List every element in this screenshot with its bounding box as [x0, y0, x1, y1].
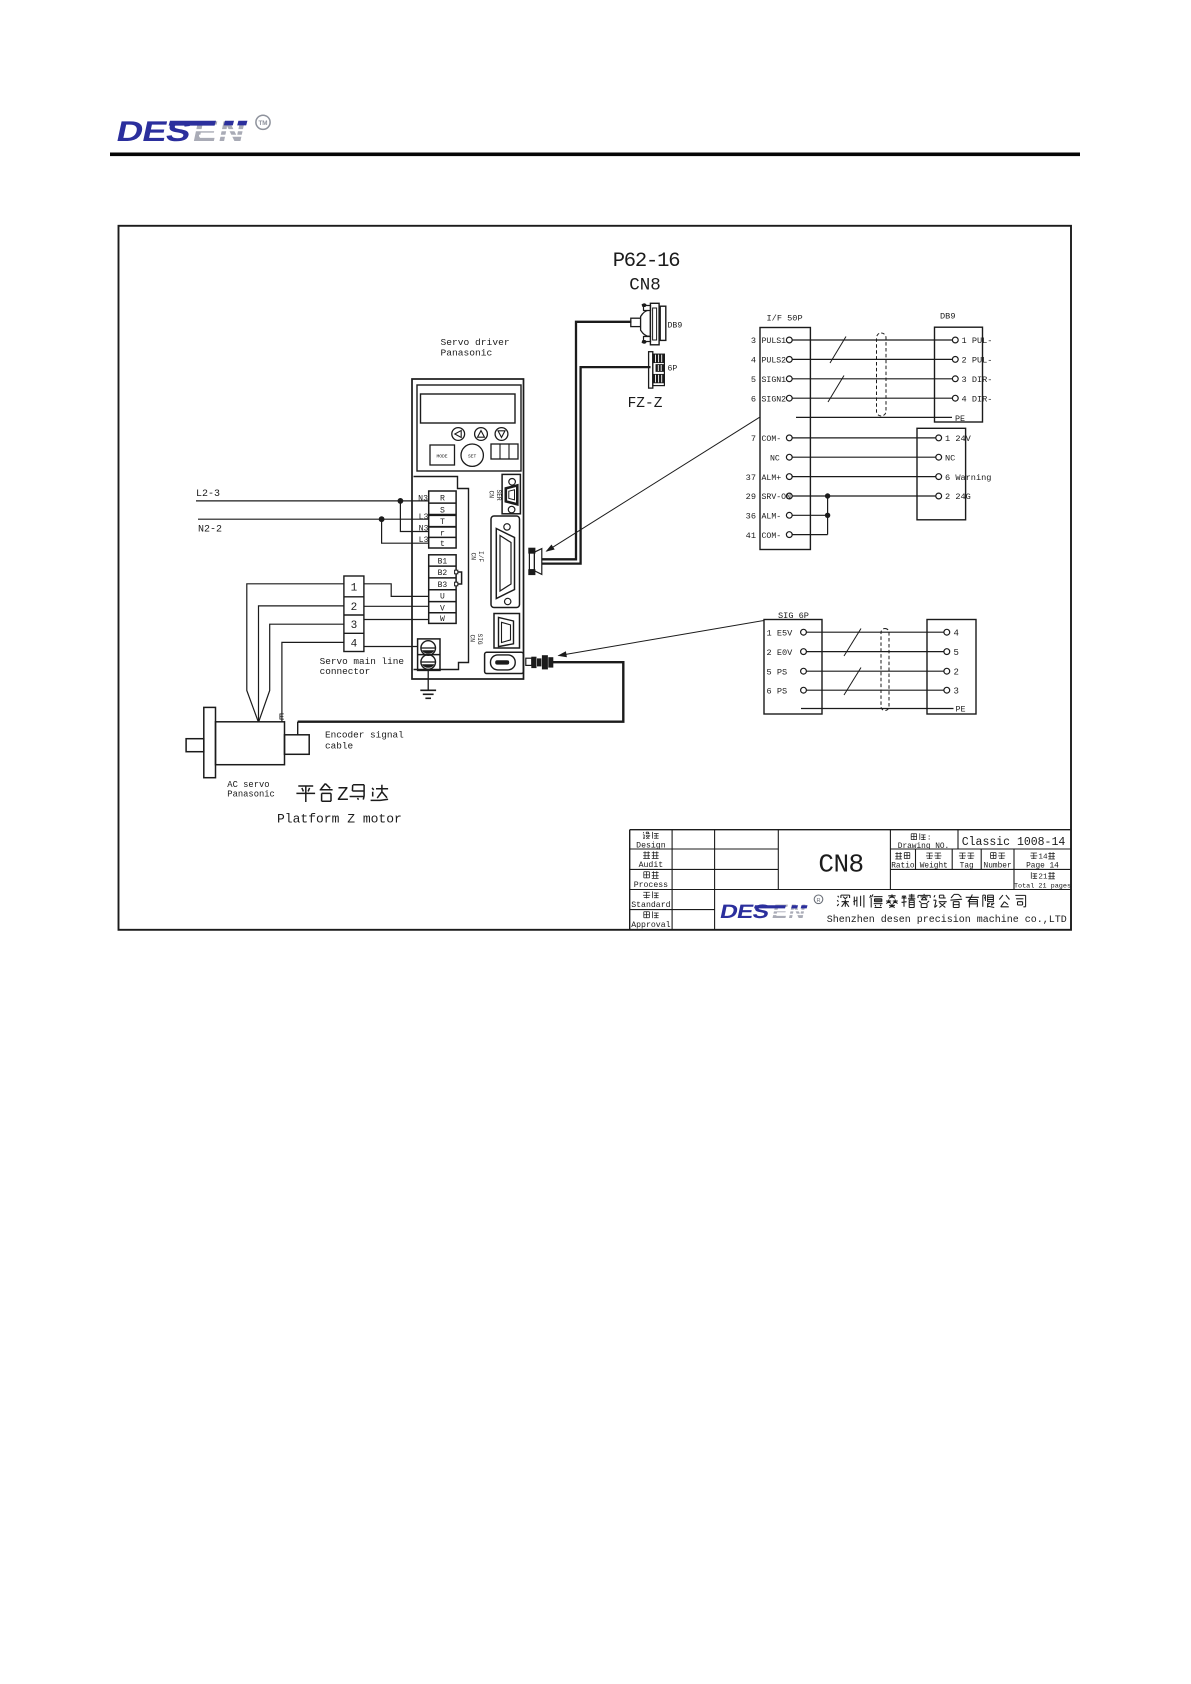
svg-text:I/F: I/F [477, 551, 484, 562]
svg-text:4: 4 [1043, 854, 1048, 862]
svg-text:Number: Number [984, 862, 1012, 870]
wire pin2 right to V terminal [364, 605, 429, 607]
encoder signal cable [298, 662, 624, 722]
svg-text:r: r [440, 529, 445, 538]
connector 6P (FZ-Z encoder end) [649, 352, 653, 388]
title row Approval [644, 912, 650, 918]
driver button left-arrow [452, 428, 465, 441]
svg-text:Audit: Audit [639, 860, 664, 870]
junction L2-3 [398, 498, 404, 504]
svg-text:FZ-Z: FZ-Z [628, 396, 663, 412]
driver SET button [461, 444, 483, 466]
wire pin2 to V [259, 606, 344, 722]
svg-text:2: 2 [954, 668, 959, 678]
svg-text:B3: B3 [438, 581, 448, 590]
svg-text:NC: NC [945, 453, 955, 463]
svg-text:P62-16: P62-16 [613, 250, 680, 273]
svg-text:CN: CN [488, 491, 495, 499]
svg-text:2 PUL-: 2 PUL- [962, 356, 993, 366]
title row Audit [643, 851, 650, 858]
svg-text:SIGN1: SIGN1 [762, 376, 787, 385]
trademark symbol [256, 115, 270, 129]
driver button up-arrow [475, 428, 488, 441]
twisted pair mark SIGN [828, 376, 844, 403]
svg-text:4: 4 [954, 629, 959, 639]
svg-text:Ratio: Ratio [891, 862, 915, 870]
jumper link B2-B3 [456, 572, 462, 584]
svg-text:6P: 6P [668, 365, 678, 374]
svg-text:Encoder signal: Encoder signal [325, 730, 404, 741]
svg-text:2 24G: 2 24G [945, 492, 971, 502]
svg-text:36: 36 [746, 512, 756, 522]
svg-text:PE: PE [956, 705, 966, 715]
svg-text:Z: Z [337, 784, 348, 806]
svg-text:4: 4 [751, 356, 756, 366]
PE shield wire [796, 416, 952, 418]
wire pin3 right to W terminal [364, 619, 429, 621]
svg-text:4: 4 [351, 638, 358, 650]
wire [792, 456, 936, 458]
svg-text:Drawing NO.: Drawing NO. [898, 843, 949, 851]
svg-text:2: 2 [351, 602, 358, 614]
title cell Tag [959, 853, 966, 859]
wire pin1 right to U terminal [364, 584, 429, 597]
svg-text:4 DIR-: 4 DIR- [962, 394, 993, 404]
wire COM- to tie [792, 534, 827, 536]
svg-text:1 E5V: 1 E5V [767, 628, 794, 638]
svg-text:1: 1 [351, 582, 358, 594]
connector battery slot [485, 652, 524, 673]
encoder connector block [927, 620, 976, 715]
DB9 pin 1 PUL- [952, 337, 958, 343]
svg-text:Standard: Standard [631, 900, 670, 910]
connector CN I/F (50P) [491, 516, 520, 608]
wire L2-3 to R [196, 500, 429, 502]
wire [806, 631, 944, 633]
title row Process [644, 872, 650, 878]
svg-text:3: 3 [751, 336, 756, 346]
svg-text:Approval: Approval [631, 920, 670, 930]
wire [806, 689, 944, 691]
cable shield (dashed) [877, 333, 887, 416]
svg-text:PULS1: PULS1 [762, 337, 787, 346]
cable shield (dashed) [881, 629, 889, 711]
wire junction to t [382, 519, 429, 543]
leader arrow to I/F 50P [547, 417, 760, 551]
svg-text:1 PUL-: 1 PUL- [962, 336, 993, 346]
encoder block pin 3 [944, 687, 950, 693]
tie wire SRV-ON/ALM-/COM- [827, 496, 829, 535]
driver terminal sub-panel outline [414, 477, 469, 670]
logo swoosh stroke [169, 121, 216, 126]
plug into CN I/F [529, 548, 535, 553]
svg-text:MODE: MODE [436, 454, 447, 460]
title block DESEN logo [718, 900, 771, 922]
wire [792, 437, 936, 439]
driver LCD display [421, 394, 516, 423]
svg-text:37: 37 [746, 473, 756, 483]
drawing border frame [119, 226, 1072, 930]
svg-text:CN8: CN8 [818, 850, 863, 880]
servo main line connector (4 way) [344, 576, 364, 652]
svg-text:DB9: DB9 [940, 312, 955, 322]
plug into CN SIG [526, 658, 532, 665]
cable from 6P connector to CN I/F plug [542, 367, 651, 563]
svg-text:CN: CN [469, 635, 476, 643]
title drawing no labels [911, 834, 916, 840]
svg-text:DES: DES [114, 115, 194, 147]
leader arrow to SIG 6P [559, 621, 765, 656]
connector CN SIG [494, 614, 520, 649]
svg-text:I/F 50P: I/F 50P [767, 314, 803, 324]
title row Design [643, 832, 650, 839]
svg-text:Servo driver: Servo driver [441, 337, 510, 348]
svg-text:3 DIR-: 3 DIR- [962, 375, 993, 385]
header rule [110, 153, 1080, 157]
junction ALM- [825, 513, 830, 518]
svg-text:3: 3 [954, 687, 959, 697]
wire pair [792, 378, 952, 380]
title cell Number [991, 853, 996, 859]
svg-text:Platform Z motor: Platform Z motor [277, 812, 402, 827]
encoder block pin 4 [944, 629, 950, 635]
wire N2-2 to T [198, 518, 429, 520]
svg-text:V: V [440, 604, 445, 613]
wire pin1 to U [247, 584, 344, 722]
ground symbol [427, 670, 429, 689]
twisted pair mark E5V/E0V [844, 629, 861, 657]
svg-text:6: 6 [751, 394, 756, 404]
24V block pin 2 24G [936, 493, 942, 499]
title cell Ratio [895, 852, 902, 859]
svg-text:B1: B1 [438, 558, 448, 567]
24V block pin 6 Warning [936, 474, 942, 480]
svg-text:5: 5 [751, 375, 756, 385]
DB9 pin 2 PUL- [952, 357, 958, 363]
AC servo motor M1 [204, 707, 216, 777]
twisted pair mark PULS [830, 337, 846, 364]
terminal block B1 B2 B3 U V W [429, 555, 456, 624]
svg-text:Panasonic: Panasonic [227, 789, 275, 799]
svg-text:CN: CN [470, 553, 477, 561]
svg-text:2 E0V: 2 E0V [767, 648, 794, 658]
connector block I/F 50P [760, 328, 810, 550]
svg-text:B2: B2 [438, 569, 448, 578]
svg-text:ALM+: ALM+ [762, 474, 782, 483]
svg-text:29: 29 [746, 492, 756, 502]
logo EN stripes [196, 129, 248, 131]
svg-text:CN8: CN8 [629, 276, 661, 296]
ground screw terminal block [418, 639, 440, 671]
svg-text:Process: Process [634, 881, 668, 890]
servo driver U1 outline [412, 379, 524, 679]
svg-text:NC: NC [770, 454, 780, 463]
svg-text:ALM-: ALM- [762, 513, 782, 522]
svg-text:L2-3: L2-3 [196, 489, 220, 500]
svg-text:5: 5 [954, 648, 959, 658]
driver display panel [417, 385, 521, 471]
24V block pin 1 24V [936, 435, 942, 441]
svg-text:Tag: Tag [960, 862, 974, 870]
svg-text:L3: L3 [419, 513, 429, 522]
svg-text:SIG: SIG [476, 634, 483, 645]
svg-text:connector: connector [320, 666, 371, 677]
PE shield wire (bottom) [801, 708, 954, 710]
svg-text:Classic 1008-14: Classic 1008-14 [962, 836, 1066, 849]
title cell Weight [926, 853, 933, 859]
svg-text:PULS2: PULS2 [762, 357, 787, 366]
svg-text:t: t [440, 540, 445, 549]
encoder block pin 2 [944, 668, 950, 674]
wire pin4 to motor earth [282, 642, 344, 721]
svg-text:3: 3 [351, 620, 358, 632]
driver button down-arrow [495, 428, 508, 441]
svg-text:1: 1 [1043, 873, 1048, 881]
svg-text:TM: TM [258, 120, 267, 127]
title logo EN stripes [769, 910, 812, 912]
title cell Total 21 pages [1031, 872, 1037, 879]
connector DB9 (cable end) [631, 318, 641, 326]
wire junction to r [400, 501, 428, 532]
svg-text:6 PS: 6 PS [767, 686, 788, 696]
svg-text:U: U [440, 593, 445, 602]
connector CN SER [502, 474, 520, 513]
DB9 pin 3 DIR- [952, 376, 958, 382]
terminal block R S T r t [429, 491, 456, 548]
junction SRV-ON [825, 493, 830, 498]
svg-text:SET: SET [468, 453, 477, 459]
svg-text:COM-: COM- [762, 532, 782, 541]
wire pair [792, 339, 952, 341]
logo N dashes [224, 121, 234, 126]
svg-text:S: S [440, 506, 445, 515]
label platform Z motor (chinese) [296, 786, 315, 802]
wire pin3 to W [259, 624, 344, 722]
svg-text:SIGN2: SIGN2 [762, 395, 787, 404]
encoder block pin 5 [944, 649, 950, 655]
svg-text:Design: Design [636, 840, 666, 850]
svg-text:DB9: DB9 [668, 322, 683, 331]
title cell Page 14 [1030, 853, 1037, 859]
svg-text:N3: N3 [418, 494, 428, 503]
svg-text:EN: EN [190, 116, 250, 148]
title company name (chinese) [837, 895, 849, 907]
svg-text:7: 7 [751, 434, 756, 444]
svg-text:Page 14: Page 14 [1026, 862, 1059, 870]
title row Standard [643, 892, 650, 898]
svg-text:Weight: Weight [920, 862, 948, 870]
registered mark [814, 895, 823, 904]
svg-text:SER: SER [495, 490, 502, 501]
svg-text:COM-: COM- [762, 435, 782, 444]
svg-text:Shenzhen desen precision machi: Shenzhen desen precision machine co.,LTD [827, 914, 1067, 926]
wire [792, 476, 936, 478]
svg-text:DES: DES [718, 900, 771, 922]
title block table [630, 829, 1071, 831]
svg-text:T: T [440, 518, 445, 527]
svg-text:6 Warning: 6 Warning [945, 473, 991, 483]
junction N2-2 [379, 516, 385, 522]
svg-text:N2-2: N2-2 [198, 525, 222, 536]
wire pin4 right to ground screws [364, 646, 418, 648]
svg-text:41: 41 [746, 531, 756, 541]
wire pair [792, 358, 952, 360]
twisted pair mark PS [844, 668, 861, 696]
wire [806, 670, 944, 672]
svg-text:R: R [816, 898, 820, 904]
svg-text:EN: EN [770, 901, 809, 923]
wire [792, 495, 936, 497]
driver 3-slot indicator [491, 444, 518, 459]
DB9 pin 4 DIR- [952, 395, 958, 401]
wire pair [792, 397, 952, 399]
driver MODE button [430, 445, 455, 465]
svg-text:PE: PE [955, 414, 965, 424]
svg-text:E: E [279, 712, 285, 723]
24V interface block [917, 428, 966, 520]
connector block SIG 6P [764, 620, 822, 715]
svg-text:5 PS: 5 PS [767, 667, 788, 677]
wire [806, 651, 944, 653]
DESEN company logo [114, 115, 194, 147]
cable from DB9 connector to CN I/F plug [542, 322, 632, 560]
svg-text:cable: cable [325, 741, 354, 752]
svg-text:Total 21 pages: Total 21 pages [1014, 882, 1071, 890]
24V block pin NC [936, 454, 942, 460]
svg-text:W: W [440, 615, 445, 624]
wire ALM- to tie [792, 514, 827, 516]
svg-text:1 24V: 1 24V [945, 434, 972, 444]
svg-text::: : [927, 835, 932, 843]
svg-text:Panasonic: Panasonic [441, 348, 493, 359]
svg-text:R: R [440, 494, 445, 503]
